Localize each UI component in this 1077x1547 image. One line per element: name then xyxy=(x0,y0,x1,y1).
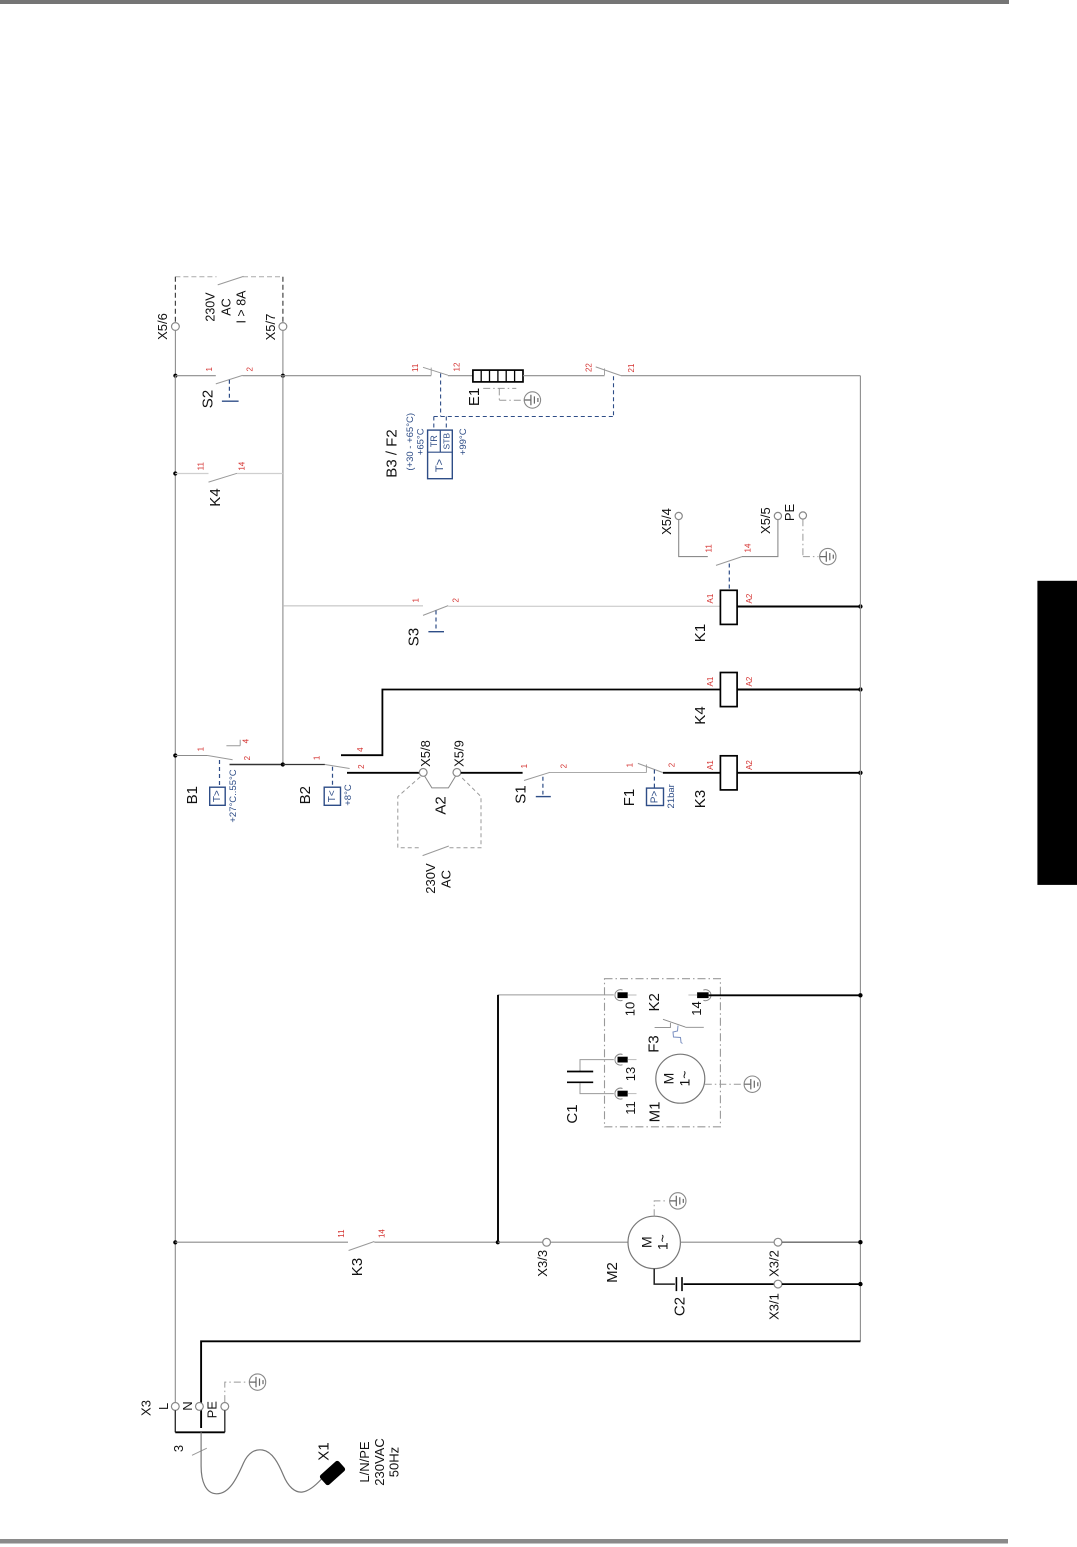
svg-text:11: 11 xyxy=(411,363,420,372)
svg-text:TR: TR xyxy=(429,435,439,447)
contact B3/F2 TR 11/12 xyxy=(423,367,448,375)
svg-text:A2: A2 xyxy=(745,593,754,603)
wire K1 aux pin14 to X5/5 xyxy=(742,520,778,557)
thermostat B1 blade xyxy=(208,756,233,760)
wire top rail right xyxy=(621,375,861,377)
wire top rail mid xyxy=(283,375,431,377)
node rail X3/2 xyxy=(858,1240,862,1244)
thermostat B2 sensor box T< xyxy=(324,787,340,805)
svg-text:B2: B2 xyxy=(297,786,314,804)
coil K3 xyxy=(692,756,737,808)
svg-text:T<: T< xyxy=(327,790,338,802)
svg-text:14: 14 xyxy=(238,461,247,470)
terminal X3/2 xyxy=(774,1238,782,1246)
pressure switch F1 box P> xyxy=(647,788,664,805)
svg-text:X5/6: X5/6 xyxy=(155,313,170,340)
wire K1 A2 to rail xyxy=(737,606,860,608)
PE earth link xyxy=(225,1382,246,1402)
svg-text:3: 3 xyxy=(171,1445,186,1452)
wire S2 pin2 xyxy=(243,375,283,377)
breaker dashed leads xyxy=(175,277,283,323)
node K1 rail xyxy=(858,604,862,608)
svg-text:M2: M2 xyxy=(604,1262,621,1283)
wire S3 pin1 xyxy=(283,605,423,607)
node B1 pin1 xyxy=(173,753,177,757)
coil K4 xyxy=(692,673,737,725)
M1 earth link xyxy=(705,1083,741,1085)
svg-text:K4: K4 xyxy=(692,706,709,724)
coil K1 xyxy=(692,590,737,642)
svg-text:K1: K1 xyxy=(692,624,709,642)
svg-text:PE: PE xyxy=(205,1401,220,1419)
svg-text:AC: AC xyxy=(220,298,234,315)
svg-text:230VAC: 230VAC xyxy=(372,1438,387,1485)
terminal X5/7 xyxy=(279,323,287,331)
svg-text:2: 2 xyxy=(451,598,460,603)
svg-text:12: 12 xyxy=(453,362,462,371)
contact K3 aux blade xyxy=(349,1242,375,1251)
node K4 row left xyxy=(173,471,177,475)
thermal element F3 squiggle xyxy=(673,1026,683,1044)
svg-text:A1: A1 xyxy=(706,593,715,603)
svg-text:14: 14 xyxy=(744,543,753,552)
switch S2 blade xyxy=(216,375,243,384)
terminal X5/8 xyxy=(419,769,427,777)
wire C2 to X3/1 xyxy=(683,1283,774,1285)
svg-text:X5/4: X5/4 xyxy=(659,508,674,535)
svg-text:N: N xyxy=(180,1401,195,1410)
capacitor C1 xyxy=(564,1060,614,1124)
svg-text:50Hz: 50Hz xyxy=(386,1447,401,1477)
wire L drop xyxy=(174,1410,176,1432)
wire right branch vertical xyxy=(282,376,284,765)
svg-text:A1: A1 xyxy=(706,676,715,686)
svg-text:14: 14 xyxy=(689,1001,704,1015)
ground at E1 xyxy=(524,392,540,408)
capacitor C2 xyxy=(654,1269,688,1316)
ground at M1 xyxy=(744,1076,760,1092)
S3 actuator xyxy=(435,611,437,630)
wire K3 pin11 xyxy=(175,1241,348,1243)
svg-text:M: M xyxy=(639,1236,655,1248)
svg-text:M: M xyxy=(661,1073,677,1085)
svg-text:X3/3: X3/3 xyxy=(535,1250,550,1277)
svg-text:A2: A2 xyxy=(432,796,449,814)
wire to E1 xyxy=(448,375,473,377)
E1 body earth link xyxy=(483,388,524,400)
terminal L xyxy=(171,1403,179,1411)
sensor B3/F2 xyxy=(428,430,453,479)
svg-text:+27°C..55°C: +27°C..55°C xyxy=(228,769,239,822)
svg-text:22: 22 xyxy=(585,363,594,372)
svg-text:X5/9: X5/9 xyxy=(451,740,466,767)
svg-text:21: 21 xyxy=(627,363,636,372)
svg-text:1~: 1~ xyxy=(655,1234,671,1250)
svg-text:S3: S3 xyxy=(406,628,423,646)
A2 internal switch blade xyxy=(423,846,449,856)
wire K3 pin14 xyxy=(374,1241,498,1243)
mains cable X1 curve xyxy=(201,1432,321,1494)
page side tab xyxy=(1037,581,1077,885)
ground at X3 PE xyxy=(249,1374,265,1390)
motor M1 circle xyxy=(656,1054,705,1103)
svg-text:STB: STB xyxy=(442,433,452,450)
PE earth link xyxy=(803,519,819,556)
ground at X5/5 PE xyxy=(820,548,836,564)
switch S3 blade xyxy=(423,606,448,616)
wire PE drop xyxy=(224,1410,226,1432)
node junction top-right xyxy=(281,374,285,378)
S2 actuator xyxy=(228,380,230,400)
plug X1 xyxy=(319,1460,346,1486)
node bottom row left xyxy=(173,1240,177,1244)
wire K4 pin14 xyxy=(237,473,283,475)
node K4 rail xyxy=(858,687,862,691)
terminal X5/4 xyxy=(675,512,682,519)
wire to terminal 10 xyxy=(498,994,614,996)
terminal N xyxy=(196,1403,204,1411)
breaker dashed box top edge xyxy=(175,276,283,278)
svg-text:X3/1: X3/1 xyxy=(767,1293,782,1320)
svg-text:13: 13 xyxy=(623,1067,638,1081)
svg-text:S2: S2 xyxy=(200,390,217,408)
wire K4 pin11 xyxy=(175,473,208,475)
motor unit M1 dash-dot box xyxy=(605,979,721,1127)
B3/F2 linkage dashed xyxy=(434,374,614,431)
wire B2 pin4 to K4 coil xyxy=(341,690,720,756)
motor M2 circle xyxy=(628,1216,680,1268)
svg-text:A2: A2 xyxy=(745,676,754,686)
svg-text:M1: M1 xyxy=(647,1102,664,1123)
terminal X5/9 xyxy=(453,769,461,777)
svg-text:S1: S1 xyxy=(513,785,530,803)
svg-text:+65°C: +65°C xyxy=(415,428,426,455)
wire X5/8-X5/9 dip xyxy=(425,776,456,788)
terminal X3/3 xyxy=(543,1238,551,1246)
ground at M2 xyxy=(670,1193,686,1209)
terminal PE top xyxy=(799,512,806,519)
svg-text:1: 1 xyxy=(520,763,529,768)
svg-text:X5/7: X5/7 xyxy=(263,314,278,341)
wire X5/7 drop xyxy=(282,330,284,375)
svg-text:1~: 1~ xyxy=(677,1071,693,1087)
svg-text:21bar: 21bar xyxy=(666,784,677,808)
thermostat B1 sensor box T> xyxy=(210,787,226,805)
contact K4 aux blade xyxy=(209,473,238,482)
svg-text:PE: PE xyxy=(782,504,797,522)
S1 actuator xyxy=(542,777,544,795)
B1 actuator xyxy=(219,760,221,787)
cable bar xyxy=(175,1431,225,1433)
svg-text:2: 2 xyxy=(246,367,255,372)
wire neutral return bottom xyxy=(201,1341,860,1428)
svg-text:10: 10 xyxy=(622,1002,637,1016)
node rail X3/1 xyxy=(858,1282,862,1286)
page header bar xyxy=(0,0,1009,4)
terminal X5/6 xyxy=(172,323,180,331)
wire left rail xyxy=(174,376,176,1403)
wire X5/6 drop xyxy=(174,330,176,375)
svg-text:P>: P> xyxy=(650,791,661,804)
terminal X5/5 xyxy=(774,512,781,519)
wire S2 pin1 xyxy=(175,375,215,377)
svg-text:B3 / F2: B3 / F2 xyxy=(384,429,401,477)
svg-text:4: 4 xyxy=(356,747,365,752)
svg-text:X5/8: X5/8 xyxy=(418,740,433,767)
svg-text:11: 11 xyxy=(705,544,714,553)
svg-text:T>: T> xyxy=(434,459,446,472)
svg-text:11: 11 xyxy=(337,1229,346,1238)
svg-text:A2: A2 xyxy=(745,760,754,770)
svg-text:AC: AC xyxy=(439,870,454,888)
pressure switch F1 blade xyxy=(638,763,663,772)
wire K3 A2 to rail xyxy=(737,772,860,774)
svg-text:K2: K2 xyxy=(646,993,663,1011)
svg-text:L: L xyxy=(156,1403,171,1410)
svg-text:1: 1 xyxy=(412,598,421,603)
heater E1 xyxy=(466,370,523,406)
svg-text:F1: F1 xyxy=(621,789,638,807)
svg-text:K3: K3 xyxy=(692,790,709,808)
terminal 10 xyxy=(615,990,637,1017)
F1 actuator xyxy=(653,770,655,789)
svg-text:X3/2: X3/2 xyxy=(767,1250,782,1277)
svg-text:E1: E1 xyxy=(466,388,483,406)
wire X3/3 to M2 xyxy=(551,1241,629,1243)
node B2 pin1 xyxy=(281,762,285,766)
svg-text:1: 1 xyxy=(626,762,635,767)
svg-text:11: 11 xyxy=(623,1101,638,1115)
wire E1 to STB contact xyxy=(523,375,605,377)
K1 aux linkage xyxy=(728,564,730,591)
svg-text:T>: T> xyxy=(212,790,223,802)
node junction top-left xyxy=(173,374,177,378)
B1 pin4 stub xyxy=(226,740,240,746)
wire X3/2 to rail xyxy=(782,1241,861,1243)
node bottom row mid xyxy=(496,1240,500,1244)
svg-text:+8°C: +8°C xyxy=(343,784,354,806)
wire X5/9 to S1 xyxy=(461,772,523,774)
svg-text:F3: F3 xyxy=(645,1035,662,1053)
svg-text:K4: K4 xyxy=(207,488,224,506)
terminal 14 xyxy=(688,990,711,1016)
svg-text:I > 8A: I > 8A xyxy=(235,290,249,324)
wire B1 pin1 xyxy=(175,755,207,757)
thermostat B2 blade xyxy=(283,764,325,766)
svg-text:X1: X1 xyxy=(316,1442,333,1460)
svg-text:14: 14 xyxy=(378,1229,387,1238)
terminal 13 xyxy=(615,1054,638,1081)
M2 earth link xyxy=(654,1201,666,1216)
wire down to bottom row xyxy=(497,995,499,1242)
terminal 11 xyxy=(615,1088,638,1115)
wire to X3/3 xyxy=(498,1241,543,1243)
terminal PE xyxy=(221,1403,229,1411)
wire K4 A2 to rail xyxy=(737,689,860,691)
svg-text:1: 1 xyxy=(196,746,205,751)
B2 actuator xyxy=(332,767,334,787)
svg-text:4: 4 xyxy=(242,738,251,743)
node rail K2 xyxy=(858,993,862,997)
svg-text:2: 2 xyxy=(357,764,366,769)
terminal X3/1 xyxy=(774,1280,782,1288)
breaker switch blade xyxy=(218,276,244,285)
svg-text:L/N/PE: L/N/PE xyxy=(357,1441,372,1483)
svg-text:C1: C1 xyxy=(564,1104,581,1123)
svg-text:11: 11 xyxy=(197,462,206,471)
svg-text:C2: C2 xyxy=(672,1297,689,1316)
svg-text:A1: A1 xyxy=(706,760,715,770)
wire F1 to K3 coil xyxy=(663,772,721,774)
svg-text:2: 2 xyxy=(667,762,676,767)
svg-text:K3: K3 xyxy=(349,1258,366,1276)
wire terminal 14 to rail xyxy=(709,994,861,996)
wire S1 to F1 xyxy=(550,772,647,774)
wire B2 pin2 out xyxy=(347,772,419,774)
wire X3/1 to rail xyxy=(782,1283,861,1285)
wire right rail xyxy=(859,376,861,1342)
contact K2/F3 xyxy=(655,1019,704,1027)
svg-text:B1: B1 xyxy=(184,786,201,804)
svg-text:+99°C: +99°C xyxy=(458,428,469,455)
label 230V AC I>8A xyxy=(204,290,249,324)
page footer bar xyxy=(0,1539,1008,1544)
wire B1 pin2 out xyxy=(230,764,283,766)
svg-text:2: 2 xyxy=(560,763,569,768)
pressure switch F1 tick xyxy=(645,764,647,772)
svg-text:230V: 230V xyxy=(423,863,438,894)
svg-text:2: 2 xyxy=(243,755,252,760)
contact B3/F2 STB 22/21 xyxy=(596,367,621,376)
switch S1 blade xyxy=(524,772,550,780)
svg-text:X5/5: X5/5 xyxy=(758,507,773,534)
device A2 dashed outline xyxy=(398,777,481,848)
contact K1 aux blade xyxy=(716,557,742,566)
wire S3 to K1 coil xyxy=(448,605,720,607)
node K3 rail xyxy=(858,771,862,775)
wire X5/4 drop xyxy=(679,520,708,557)
svg-text:230V: 230V xyxy=(204,292,218,322)
wire M2 to X3/2 xyxy=(680,1241,774,1243)
svg-text:X3: X3 xyxy=(139,1400,154,1416)
svg-text:1: 1 xyxy=(313,755,322,760)
svg-text:1: 1 xyxy=(205,367,214,372)
